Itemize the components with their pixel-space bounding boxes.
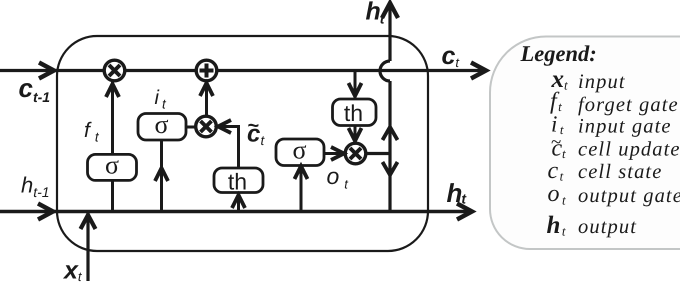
legend item x_t input <box>551 66 626 93</box>
legend title <box>520 41 597 66</box>
svg-text:~: ~ <box>551 132 561 153</box>
arrowhead th2 into X3 <box>349 128 362 141</box>
label h_t right <box>447 178 468 208</box>
wire sigma-i output to X2 <box>186 126 200 129</box>
arrowhead into o sigma box <box>295 166 308 179</box>
gate box th2 (output tanh) <box>333 99 377 126</box>
legend item h_t output <box>547 212 638 239</box>
wire tanh branch (c-line down through th2 to X3) <box>354 71 357 145</box>
gate box th1 (cell update tanh) <box>214 168 263 194</box>
label o_t <box>327 163 350 192</box>
svg-text:cell update: cell update <box>578 139 680 161</box>
legend box <box>490 37 680 250</box>
arrowhead into add node P1 <box>200 83 213 96</box>
wire cell-update branch (h-line up through th1, elbow to X2) <box>218 127 239 212</box>
svg-text:output: output <box>578 216 637 238</box>
arrowhead h-branch up <box>383 127 398 140</box>
arrowhead x_t input <box>81 215 96 229</box>
legend item i_t input gate <box>551 112 672 138</box>
label c-tilde_t <box>247 115 266 148</box>
wire X3 output to h-branch junction <box>366 152 390 155</box>
label x_t <box>62 257 83 285</box>
legend item f_t forget gate <box>550 89 679 116</box>
wire f-gate branch (h-line up through sigma-f to X1) <box>111 82 114 212</box>
arrowhead o sigma into X3 <box>331 147 344 160</box>
svg-text:σ: σ <box>292 136 306 165</box>
svg-text:input gate: input gate <box>578 116 672 138</box>
arrowhead c_t-1 into cell <box>39 63 54 79</box>
gate box sigma-i <box>138 110 186 140</box>
arrowhead into th2 <box>349 83 362 96</box>
svg-text:t: t <box>562 146 566 161</box>
svg-text:cell state: cell state <box>578 161 662 183</box>
gate box sigma-o <box>276 136 324 166</box>
wire X2 up to plus node <box>205 82 208 120</box>
arrowhead h-branch down <box>383 162 398 175</box>
svg-text:σ: σ <box>105 151 119 180</box>
arrowhead into th1 <box>232 195 245 208</box>
LSTM cell body <box>57 36 428 251</box>
arrowhead cell-update into X2 <box>218 120 231 133</box>
label h_t top <box>366 0 386 27</box>
arrowhead i branch (midway) <box>155 168 168 181</box>
label c_t-1 <box>19 73 51 105</box>
arrowhead h_t-1 into cell <box>38 204 53 220</box>
legend item o_t output gate <box>548 181 680 208</box>
wire sigma-o output to X3 <box>324 152 345 155</box>
svg-text:output gate: output gate <box>578 185 680 207</box>
wire hop (h-branch jumps over c-line) <box>380 61 390 81</box>
multiply node X1 (forget gate) <box>104 60 125 81</box>
svg-text:~: ~ <box>248 115 260 137</box>
arrowhead c_t output <box>471 63 486 79</box>
add node P1 <box>196 60 217 81</box>
legend item c_t cell state <box>548 158 663 184</box>
arrowhead h_t top output <box>382 3 398 18</box>
wire h-line (h_t-1 input through cell to h_t output) <box>0 210 471 214</box>
wire x_t input <box>86 212 89 282</box>
gate box sigma-f <box>88 151 137 181</box>
arrowhead h_t right output <box>457 204 472 220</box>
svg-text:input: input <box>578 71 626 93</box>
svg-text:th: th <box>228 168 247 194</box>
svg-text:forget gate: forget gate <box>578 94 679 116</box>
multiply node X3 (output gate) <box>345 143 366 164</box>
label c_t top right <box>442 42 461 70</box>
wire c-line (c_t-1 input through cell to c_t output) <box>0 69 485 72</box>
legend item c-tilde_t cell update <box>551 132 680 162</box>
label f_t <box>84 119 100 145</box>
svg-text:th: th <box>344 100 363 126</box>
label i_t <box>155 87 167 112</box>
wire o-gate branch (h-line up to sigma-o) <box>300 160 303 212</box>
wire h-branch vertical (junction down to h-line, up to h_t top with hop over c-line) <box>388 3 391 212</box>
label h_t-1 <box>21 173 50 201</box>
svg-text:Legend:: Legend: <box>520 41 597 66</box>
wire i-gate branch (h-line up to sigma-i) <box>160 127 163 212</box>
svg-text:σ: σ <box>154 110 168 139</box>
multiply node X2 (input gate) <box>196 116 217 137</box>
arrowhead f branch into X1 <box>106 84 119 97</box>
